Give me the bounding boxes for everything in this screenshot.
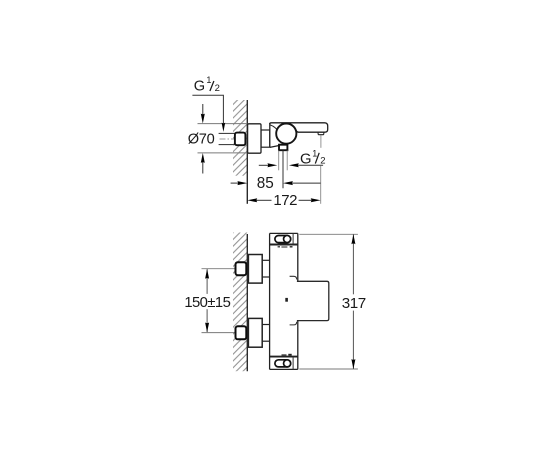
svg-text:172: 172: [273, 192, 297, 209]
svg-text:G: G: [300, 151, 312, 167]
svg-text:85: 85: [257, 175, 274, 192]
svg-text:1: 1: [312, 149, 317, 159]
svg-text:2: 2: [320, 156, 325, 167]
svg-text:G: G: [194, 79, 205, 95]
svg-text:Ø70: Ø70: [188, 131, 215, 147]
svg-text:150±15: 150±15: [184, 295, 230, 311]
svg-text:317: 317: [342, 295, 366, 312]
svg-text:2: 2: [215, 83, 220, 94]
svg-text:1: 1: [206, 75, 211, 85]
